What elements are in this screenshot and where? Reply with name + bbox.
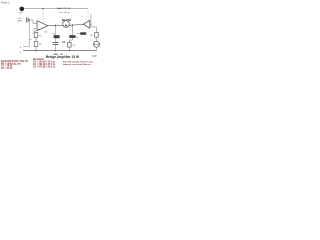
wire U1 output line bbox=[48, 24, 64, 26]
svg-text:Page 1: Page 1 bbox=[1, 0, 10, 4]
wire input to U1 bbox=[28, 20, 37, 24]
resistor R7 value blob bbox=[80, 32, 86, 35]
svg-text:balance, use metal film res.: balance, use metal film res. bbox=[63, 63, 92, 66]
wire M2 to rail bbox=[96, 47, 98, 51]
capacitor C1 input bbox=[26, 18, 28, 23]
op-amp U1 bbox=[37, 21, 48, 31]
resistor R1 bbox=[34, 33, 38, 38]
wire R4 blob to R4 box bbox=[69, 38, 72, 43]
resistor R5 bbox=[95, 33, 99, 38]
wire U2 feedback up bbox=[91, 14, 97, 33]
wire R2 to rail bbox=[35, 47, 37, 51]
wire branch R4 bbox=[72, 25, 74, 35]
wire R5 to M2 bbox=[96, 37, 98, 41]
battery B1 bbox=[20, 7, 25, 12]
wire R7 stub bbox=[78, 33, 81, 35]
svg-text:S1 B1 12V 2A: S1 B1 12V 2A bbox=[57, 7, 71, 10]
resistor R2 bbox=[34, 42, 38, 47]
wire top supply rail bbox=[24, 8, 88, 10]
wire branch R3 bbox=[54, 26, 56, 36]
resistor R4 bbox=[67, 42, 71, 47]
node D junction bbox=[72, 24, 73, 25]
wire left vertical to output stub bbox=[23, 20, 29, 47]
svg-text:1/2: 1/2 bbox=[81, 16, 83, 18]
svg-text:1kHz: 1kHz bbox=[17, 21, 22, 23]
svg-text:1k: 1k bbox=[76, 37, 78, 39]
svg-text:6 W: 6 W bbox=[92, 54, 97, 58]
op-amp U2 bbox=[83, 20, 90, 28]
node rail junctions bbox=[35, 50, 36, 51]
meter M2 bbox=[94, 41, 100, 47]
wire supply drop to U2 bbox=[87, 9, 89, 21]
node C junction bbox=[55, 25, 56, 26]
node B junction bbox=[58, 8, 59, 9]
svg-text:C2 = 47 nF: C2 = 47 nF bbox=[1, 67, 13, 70]
svg-text:Bridge Amplifier 15 W: Bridge Amplifier 15 W bbox=[46, 55, 79, 59]
meter M1 bbox=[63, 21, 70, 28]
svg-text:on / off sw.: on / off sw. bbox=[59, 12, 70, 14]
wire meter to U2 bbox=[69, 24, 84, 25]
wire between R1 R2 bbox=[35, 38, 37, 42]
wire bottom rail bbox=[23, 50, 97, 52]
resistor R4 value blob bbox=[69, 35, 75, 38]
node A junction bbox=[42, 8, 43, 9]
svg-text:8Ω 15W: 8Ω 15W bbox=[62, 19, 72, 22]
node input junction bbox=[29, 19, 30, 20]
wire C2 to rail bbox=[54, 45, 56, 51]
capacitor C2 polarized bbox=[53, 43, 59, 45]
node tick bbox=[29, 39, 31, 41]
resistor R3 value blob bbox=[54, 35, 60, 38]
parts list column 1 bbox=[1, 60, 28, 70]
notes column 3 bbox=[63, 61, 93, 66]
svg-text:C5 = 470 µF / 25 V st.: C5 = 470 µF / 25 V st. bbox=[33, 65, 56, 68]
wire U1 +input feedback bbox=[34, 29, 37, 33]
parts list column 2 bbox=[33, 58, 56, 68]
wire U2 to branch bbox=[90, 23, 91, 25]
wire supply drop to U1 bbox=[42, 9, 44, 24]
wire R4 to rail bbox=[68, 47, 70, 51]
svg-text:12V: 12V bbox=[19, 13, 23, 15]
wire R3 to C2 bbox=[54, 38, 56, 42]
